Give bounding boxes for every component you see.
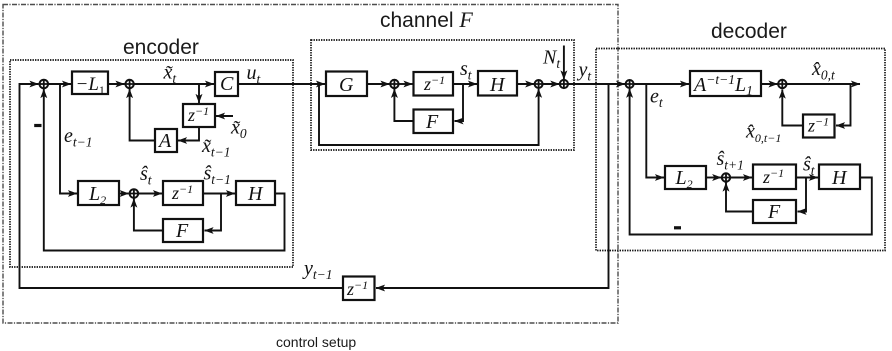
sum S7	[626, 80, 634, 88]
svg-text:C: C	[220, 73, 234, 95]
box z-1 encoder state	[183, 104, 215, 127]
box F encoder	[163, 219, 203, 242]
wire sum S2 to C	[134, 83, 214, 85]
wire C to channel G	[238, 83, 325, 85]
box A	[155, 129, 177, 152]
box F decoder	[753, 200, 796, 223]
box H decoder	[819, 165, 860, 190]
box G	[326, 72, 367, 97]
box z-1 encoder observer	[163, 181, 203, 205]
wire junction down to F decoder	[798, 178, 807, 212]
wire z-1 to H encoder	[203, 193, 235, 195]
wire output branch down to z-1 decoder	[836, 84, 851, 126]
svg-text:decoder: decoder	[711, 20, 787, 43]
minus sign at encoder sum S1 left input	[34, 124, 41, 127]
svg-text:A: A	[157, 130, 172, 152]
sum S8	[778, 80, 786, 88]
svg-text:control setup: control setup	[276, 334, 356, 350]
box F channel	[414, 110, 454, 134]
minus sign at decoder feedback	[674, 226, 681, 229]
wire y_t-1 feedback to sum S1	[20, 84, 344, 288]
wire F to sum S9 decoder	[726, 183, 753, 212]
wire A box to sum S8	[761, 83, 778, 85]
box H channel	[478, 71, 517, 96]
box z-1 channel	[414, 72, 454, 96]
sum S3	[130, 189, 139, 198]
svg-text:channel F: channel F	[380, 7, 473, 32]
wire F to sum S4 channel	[394, 89, 413, 121]
svg-text:F: F	[425, 111, 439, 133]
decoder dotted box	[596, 49, 885, 251]
wire sum S8 to x^_0t output	[787, 83, 860, 85]
svg-text:F: F	[175, 220, 189, 242]
wire y_t branch down to z-1 bottom	[376, 84, 609, 288]
box z-1 decoder observer	[753, 165, 796, 190]
box z-1 decoder top	[803, 115, 835, 138]
wire -L1 to sum S2	[107, 83, 125, 85]
wire junction down to F encoder	[205, 194, 222, 231]
wire z-1 to sum S8	[782, 90, 803, 126]
box -L1	[72, 72, 108, 95]
wire junction e_t-1 down to L2	[60, 84, 77, 194]
wire channel feedthrough u_t to sum S5	[319, 84, 539, 145]
svg-text:H: H	[831, 167, 848, 189]
box H encoder	[236, 181, 275, 205]
sum S9	[722, 173, 730, 181]
wire H decoder loop to sum S7	[630, 89, 872, 235]
channel dotted box	[311, 40, 574, 150]
wire sum S5 to sum S6	[542, 83, 559, 85]
sum S1	[40, 80, 49, 89]
wire drop to z-1 state	[198, 84, 200, 103]
sum S2	[125, 80, 133, 88]
box L2 encoder	[78, 181, 119, 205]
wire z-1 to H decoder	[796, 177, 818, 179]
svg-text:H: H	[247, 183, 264, 205]
svg-text:encoder: encoder	[123, 36, 199, 59]
box z-1 bottom y delay	[343, 277, 375, 301]
svg-text:F: F	[767, 201, 781, 223]
svg-text:G: G	[339, 74, 354, 96]
wire A to sum S2	[130, 89, 155, 141]
wire sum S1 to -L1	[48, 83, 71, 85]
svg-text:H: H	[489, 74, 506, 96]
wire e_t branch down to L2 decoder	[646, 84, 664, 178]
wire sum S3 to z-1	[138, 193, 162, 195]
wire G to sum S4	[367, 83, 390, 85]
control setup dash-dot outer box	[3, 5, 618, 324]
sum S4	[390, 80, 398, 88]
wire H loop back to sum S1	[44, 89, 285, 251]
box A^-t-1 L1	[690, 71, 761, 96]
wire x~_0 initial condition	[216, 115, 233, 117]
wire z-1 to H channel	[453, 83, 477, 85]
wire F to sum S3	[134, 199, 163, 231]
box L2 decoder	[665, 166, 706, 189]
encoder dotted box	[10, 60, 293, 267]
wire L2 to sum S9	[706, 177, 721, 179]
wire junction down to F channel	[455, 84, 464, 121]
sum S6	[560, 80, 568, 88]
wire sum S9 to z-1 decoder observer	[730, 177, 752, 179]
wire H to sum S5	[517, 83, 534, 85]
sum S5	[535, 80, 543, 88]
wire sum S4 to z-1 channel	[399, 83, 413, 85]
box C	[215, 72, 238, 96]
wire sum S7 to A^-t-1 L1 box	[634, 83, 689, 85]
wire N_t into sum S6	[563, 46, 565, 80]
wire z-1 to A	[178, 127, 199, 141]
wire L2 to sum S3	[119, 193, 129, 195]
wire sum S6 to decoder sum S7 (y_t)	[568, 83, 625, 85]
